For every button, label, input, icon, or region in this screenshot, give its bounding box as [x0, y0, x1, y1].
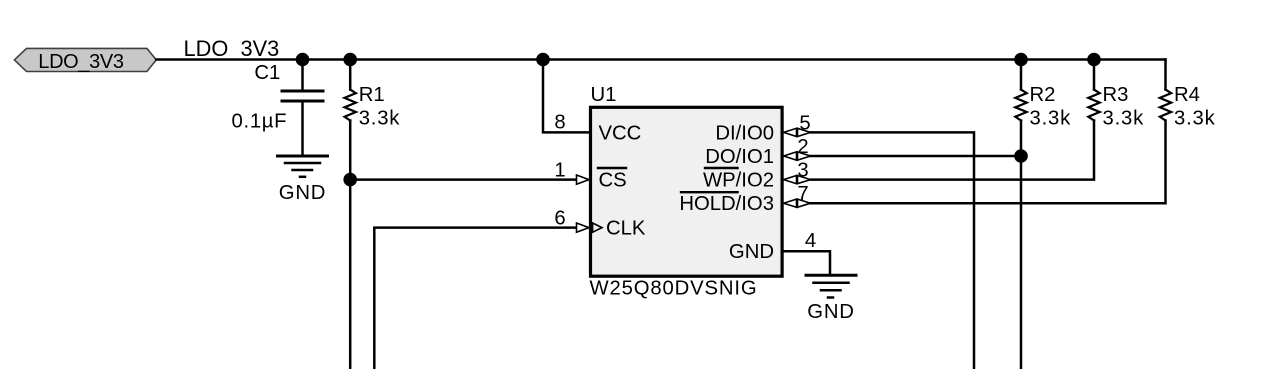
svg-text:U1: U1 [591, 84, 617, 106]
svg-text:GND: GND [807, 301, 854, 323]
resistor R3 [1088, 60, 1144, 130]
node CS/R1 [343, 173, 357, 187]
node R1 top [343, 53, 357, 67]
svg-text:5: 5 [799, 112, 810, 134]
pin 5 DI/IO0 [715, 112, 810, 144]
pin 4 GND [729, 230, 830, 275]
pin 1 CS [554, 159, 626, 191]
svg-text:R1: R1 [359, 84, 385, 106]
svg-text:GND: GND [279, 182, 326, 204]
svg-text:DO/IO1: DO/IO1 [705, 146, 774, 168]
svg-text:VCC: VCC [599, 122, 642, 144]
wire: R1 column to bottom edge [349, 180, 352, 369]
wire: WP/IO2 to R3 [811, 121, 1095, 180]
svg-text:CLK: CLK [606, 218, 646, 240]
svg-text:LDO_3V3: LDO_3V3 [184, 36, 280, 61]
node R2 top [1014, 53, 1028, 67]
wire: HOLD/IO3 to R4 [811, 121, 1166, 204]
svg-text:1: 1 [554, 159, 565, 181]
pin 7 HOLD/IO3 [679, 183, 810, 215]
pin 6 CLK [554, 207, 646, 239]
resistor R4 [1160, 84, 1216, 130]
svg-text:3.3k: 3.3k [1174, 108, 1216, 130]
svg-text:0.1µF: 0.1µF [232, 110, 288, 132]
svg-text:GND: GND [729, 241, 774, 263]
wire: CS line from R1 column to chip [350, 178, 577, 181]
svg-text:4: 4 [805, 230, 816, 252]
wire: top power rail [156, 58, 1165, 61]
wire: VCC branch [543, 60, 589, 133]
pin 3 WP/IO2 [703, 159, 811, 191]
svg-text:W25Q80DVSNIG: W25Q80DVSNIG [590, 277, 758, 299]
pin 8 VCC [554, 112, 641, 145]
resistor R1 [345, 60, 401, 180]
svg-text:3.3k: 3.3k [1030, 108, 1072, 130]
svg-text:C1: C1 [254, 62, 280, 84]
svg-text:2: 2 [797, 136, 808, 158]
node R3 top [1087, 53, 1101, 67]
wire: R4 top drop [1164, 60, 1167, 90]
IC U1 body [590, 84, 783, 299]
svg-text:R3: R3 [1103, 84, 1129, 106]
svg-text:DI/IO0: DI/IO0 [715, 122, 774, 144]
svg-text:6: 6 [554, 207, 565, 229]
node VCC branch [536, 53, 550, 67]
resistor R2 [1015, 60, 1071, 157]
svg-text:3: 3 [797, 159, 808, 181]
svg-text:CS: CS [599, 170, 627, 192]
wire: R2 column to bottom [1020, 156, 1023, 369]
svg-text:3.3k: 3.3k [1103, 108, 1145, 130]
ground (C1) [278, 156, 328, 204]
svg-text:WP/IO2: WP/IO2 [703, 170, 774, 192]
junction dots [296, 53, 1101, 187]
svg-text:8: 8 [554, 112, 565, 134]
svg-text:3.3k: 3.3k [359, 108, 401, 130]
pin 2 DO/IO1 [705, 136, 810, 168]
svg-text:HOLD/IO3: HOLD/IO3 [679, 193, 774, 215]
ground (U1 pin 4) [806, 275, 856, 323]
wire: DI/IO0 to bottom [811, 132, 975, 369]
capacitor C1 [232, 60, 324, 157]
svg-text:R4: R4 [1174, 84, 1200, 106]
node DO/R2 [1014, 149, 1028, 163]
power flag LDO_3V3 [14, 48, 156, 73]
svg-text:7: 7 [797, 183, 808, 205]
wire: DO/IO1 to R2 [811, 155, 1022, 158]
svg-text:LDO_3V3: LDO_3V3 [38, 51, 124, 73]
wire: CLK elbow [374, 228, 577, 369]
node C1 top [296, 53, 310, 67]
svg-text:R2: R2 [1030, 84, 1056, 106]
